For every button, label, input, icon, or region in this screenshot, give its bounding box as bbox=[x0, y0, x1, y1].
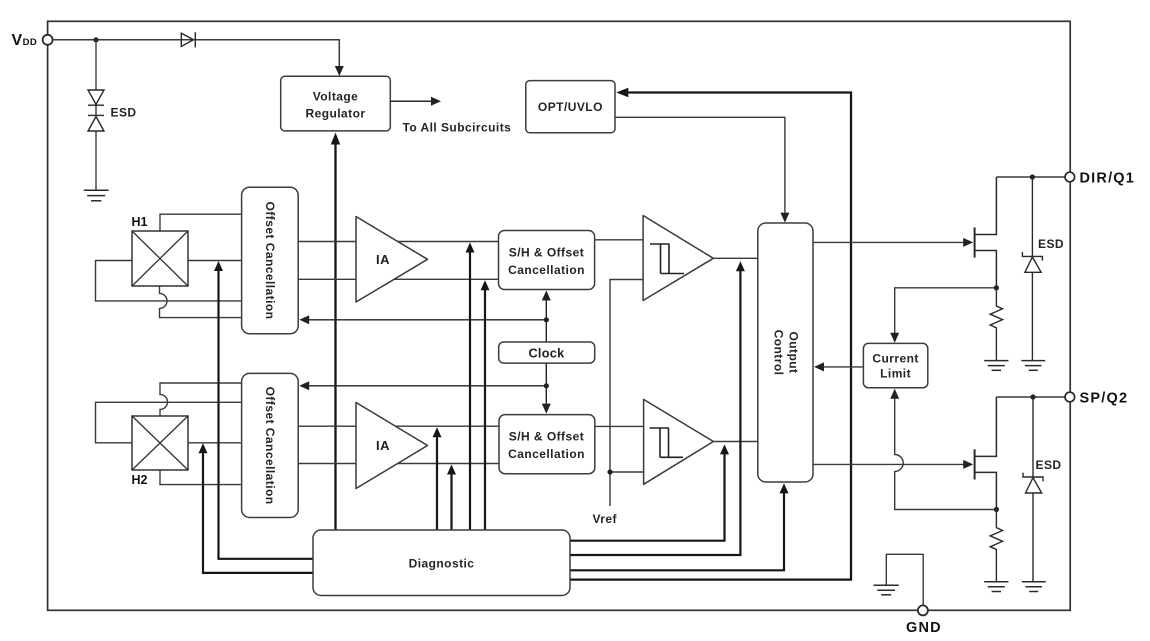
svg-text:ESD: ESD bbox=[111, 106, 137, 120]
clock box bbox=[499, 342, 595, 363]
svg-text:IA: IA bbox=[376, 438, 390, 453]
ground Z2 bbox=[1022, 582, 1046, 592]
svg-text:IA: IA bbox=[376, 252, 390, 267]
ground Z1 bbox=[1021, 361, 1045, 371]
svg-text:Clock: Clock bbox=[528, 346, 565, 360]
wire clock to S/H1 (arrow up) bbox=[545, 296, 547, 342]
svg-text:Voltage: Voltage bbox=[313, 90, 359, 104]
wire ESD branch bbox=[95, 40, 97, 190]
comparator 1 bbox=[643, 216, 713, 301]
wire clock feedback to offset2 (arrow left) bbox=[308, 385, 546, 387]
svg-text:Regulator: Regulator bbox=[305, 107, 365, 121]
voltage regulator bbox=[281, 76, 391, 131]
wire output control to MOSFET1 gate bbox=[813, 241, 964, 243]
wire comparator2 to output control bbox=[713, 441, 757, 443]
wire clock feedback to offset1 (arrow left) bbox=[308, 319, 546, 321]
wire output control to MOSFET2 gate bbox=[813, 463, 964, 465]
wire sense Q1 to current limit (arrow down) bbox=[895, 288, 997, 337]
MOSFET Q2 bbox=[975, 397, 997, 510]
offset cancellation 2 bbox=[242, 373, 299, 517]
svg-text:To All Subcircuits: To All Subcircuits bbox=[403, 121, 512, 135]
wire diagnostic to OPT/UVLO (thick) bbox=[570, 93, 851, 580]
junction Q2 source bbox=[994, 507, 999, 512]
ground (internal GND) bbox=[874, 585, 899, 595]
wire SP/Q2 bbox=[996, 396, 1064, 398]
junction Vref bbox=[607, 469, 612, 474]
ground R1 bbox=[984, 361, 1008, 371]
OPT/UVLO box bbox=[526, 81, 615, 133]
diagnostic arrow to output control bottom bbox=[570, 489, 784, 570]
S/H & offset cancellation 1 bbox=[499, 231, 595, 290]
wire GND pin to internal ground bbox=[886, 554, 923, 605]
wire DIR/Q1 bbox=[996, 176, 1064, 178]
svg-text:H2: H2 bbox=[132, 473, 148, 487]
svg-text:Offset Cancellation: Offset Cancellation bbox=[263, 202, 277, 320]
wire H1 bottom with hop bbox=[160, 286, 242, 318]
arrow to all subcircuits bbox=[390, 100, 431, 102]
svg-text:OPT/UVLO: OPT/UVLO bbox=[538, 100, 603, 114]
diagnostic arrow to H2 upper wire bbox=[436, 431, 438, 530]
ground R2 bbox=[984, 582, 1008, 592]
wire H1 left loop bbox=[96, 261, 242, 301]
wire OPT/UVLO to output control bbox=[615, 117, 785, 217]
hysteresis symbol 1 bbox=[650, 244, 684, 274]
junction clock lower bbox=[544, 383, 549, 388]
wire comparator1 to output control bbox=[713, 257, 758, 259]
svg-text:Limit: Limit bbox=[880, 366, 911, 380]
wire S/H1 to comparator 1 bbox=[595, 239, 644, 241]
S/H & offset cancellation 2 bbox=[499, 415, 595, 474]
wire VDD rail bbox=[53, 40, 339, 71]
comparator 2 bbox=[644, 399, 714, 484]
hysteresis symbol 2 bbox=[650, 428, 684, 457]
junction Q1 source bbox=[994, 285, 999, 290]
svg-text:ESD: ESD bbox=[1036, 458, 1062, 472]
svg-text:Output: Output bbox=[786, 331, 800, 373]
svg-text:SP/Q2: SP/Q2 bbox=[1080, 391, 1129, 407]
wire H2 top with hop bbox=[160, 383, 242, 416]
IA amplifier 1 bbox=[356, 217, 428, 303]
junction SP/ESD bbox=[1030, 394, 1035, 399]
Vref net bbox=[610, 280, 644, 507]
Hall element H1 bbox=[132, 231, 188, 286]
svg-text:Vref: Vref bbox=[593, 512, 618, 526]
ESD zener Z2 bbox=[1032, 397, 1034, 582]
arrow into voltage regulator top bbox=[335, 66, 344, 76]
diagnostic arrow to H1 upper wire bbox=[469, 246, 471, 530]
junction VDD/ESD bbox=[93, 37, 98, 42]
wire offset1 to S/H1 lower bbox=[298, 278, 498, 280]
diagnostic arrow to H2 lower wire bbox=[450, 468, 452, 530]
svg-text:Current: Current bbox=[872, 351, 919, 365]
wire offset1 to S/H1 upper bbox=[298, 241, 498, 243]
pin GND bbox=[918, 605, 928, 615]
svg-text:H1: H1 bbox=[132, 215, 148, 229]
svg-text:Cancellation: Cancellation bbox=[508, 447, 585, 461]
ground (ESD clamp) bbox=[84, 190, 109, 201]
ESD diode down bbox=[88, 90, 104, 105]
diagnostic arrow to H1 lower wire bbox=[484, 284, 486, 531]
ESD zener Z1 bbox=[1031, 177, 1033, 361]
MOSFET Q1 bbox=[975, 177, 997, 288]
wire diagnostic sense H1 (thick arrow up) bbox=[219, 265, 314, 559]
svg-text:ESD: ESD bbox=[1038, 237, 1064, 251]
diagnostic box bbox=[313, 530, 570, 596]
diagnostic arrow to comparator2 output bbox=[570, 449, 725, 541]
wire offset2 to S/H2 upper bbox=[298, 425, 499, 427]
Hall element H2 bbox=[132, 416, 188, 470]
resistor R1 bbox=[990, 288, 1002, 361]
svg-text:Cancellation: Cancellation bbox=[508, 263, 585, 277]
wire H2 bottom bbox=[160, 470, 242, 485]
svg-text:S/H & Offset: S/H & Offset bbox=[509, 430, 584, 444]
wire H2 right to offset cancellation bbox=[188, 442, 242, 444]
svg-text:DIR/Q1: DIR/Q1 bbox=[1080, 171, 1136, 187]
resistor R2 bbox=[990, 510, 1002, 582]
svg-text:VDD: VDD bbox=[12, 32, 38, 49]
junction clock upper bbox=[544, 317, 549, 322]
wire H1 right to offset cancellation bbox=[188, 260, 242, 262]
offset cancellation 1 bbox=[242, 187, 299, 334]
output control box bbox=[758, 223, 813, 482]
diode D1 bbox=[181, 32, 195, 47]
ESD diode up bbox=[88, 115, 104, 131]
wire H2 left loop bbox=[96, 402, 242, 443]
pin VDD bbox=[43, 35, 53, 45]
pin SP/Q2 bbox=[1065, 392, 1075, 402]
wire S/H2 to comparator 2 bbox=[595, 425, 644, 427]
svg-text:S/H & Offset: S/H & Offset bbox=[509, 246, 584, 260]
svg-text:Offset Cancellation: Offset Cancellation bbox=[263, 387, 277, 505]
pin DIR/Q1 bbox=[1065, 172, 1075, 182]
wire current limit to output control (arrow left) bbox=[823, 366, 863, 368]
junction DIR/ESD bbox=[1030, 174, 1035, 179]
wire sense Q2 to current limit (arrow up, hop) bbox=[895, 398, 997, 510]
wire offset2 to S/H2 lower bbox=[298, 463, 499, 465]
wire H1 top bbox=[160, 214, 242, 231]
IA amplifier 2 bbox=[356, 403, 428, 489]
svg-text:Control: Control bbox=[771, 330, 785, 376]
wire diagnostic to voltage regulator (thick) bbox=[334, 144, 336, 530]
svg-text:GND: GND bbox=[906, 620, 942, 636]
diagnostic arrow to comparator1 output bbox=[570, 265, 740, 555]
wire diagnostic sense H2 (thick arrow up) bbox=[203, 447, 313, 573]
wire clock to S/H2 (arrow down) bbox=[545, 363, 547, 408]
current limit box bbox=[863, 343, 927, 387]
svg-text:Diagnostic: Diagnostic bbox=[409, 557, 475, 571]
